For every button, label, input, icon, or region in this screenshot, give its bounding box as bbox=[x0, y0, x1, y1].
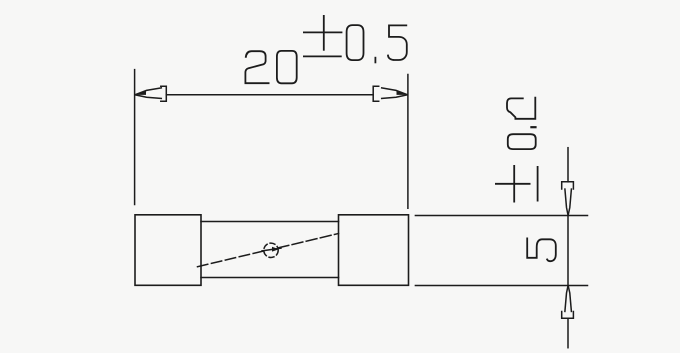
tolerance 0.2 decimal point (rotated) bbox=[531, 126, 535, 128]
tolerance 0.5 decimal point bbox=[374, 58, 376, 63]
tolerance 0.2 digit 2 (rotated 90 CCW) bbox=[507, 98, 535, 119]
extension line right of 20mm dimension bbox=[407, 75, 409, 209]
tolerance 0.5 digit 5 bbox=[388, 25, 407, 60]
arrowhead right (hollow, pointing right) bbox=[373, 86, 407, 101]
extension line top of 5mm dimension bbox=[415, 215, 587, 217]
dimension line 20mm bbox=[166, 94, 373, 96]
fuse right end cap bbox=[339, 215, 409, 285]
text 20 digit 0 bbox=[277, 51, 297, 83]
fuse glass tube bottom line bbox=[201, 277, 339, 279]
tolerance 0.2 digit 0 (rotated 90 CCW) bbox=[508, 134, 536, 149]
tolerance plusminus 0.2 (rotated 90 CCW) : plusminus sign bbox=[496, 166, 538, 202]
fuse element wire middle segment through bead bbox=[262, 248, 281, 251]
text 5 (rotated 90 CCW) bbox=[527, 238, 556, 261]
fuse element bead arrow mark bbox=[272, 247, 279, 252]
extension line left of 20mm dimension bbox=[134, 70, 136, 205]
arrowhead left (hollow, pointing left) bbox=[135, 86, 166, 101]
fuse element wire right segment (dashed) bbox=[278, 234, 339, 248]
dimension line 5mm lower segment bbox=[567, 318, 569, 347]
fuse glass tube top line bbox=[201, 221, 339, 223]
arrowhead top (hollow, pointing down) bbox=[562, 182, 574, 215]
fuse element wire left segment (dashed) bbox=[198, 251, 264, 267]
text 20 digit 2 bbox=[245, 51, 268, 83]
arrowhead bottom (hollow, pointing up) bbox=[562, 286, 574, 318]
tolerance 0.5 digit 0 bbox=[347, 25, 364, 60]
dimension line 5mm upper segment bbox=[567, 148, 569, 182]
extension line bottom of 5mm dimension bbox=[415, 285, 587, 287]
tolerance plusminus 0.5 : plusminus sign bbox=[304, 16, 342, 57]
dimension line 5mm middle segment bbox=[567, 216, 569, 286]
fuse element bead circle (dashed) bbox=[264, 243, 278, 257]
fuse left end cap bbox=[135, 215, 201, 285]
